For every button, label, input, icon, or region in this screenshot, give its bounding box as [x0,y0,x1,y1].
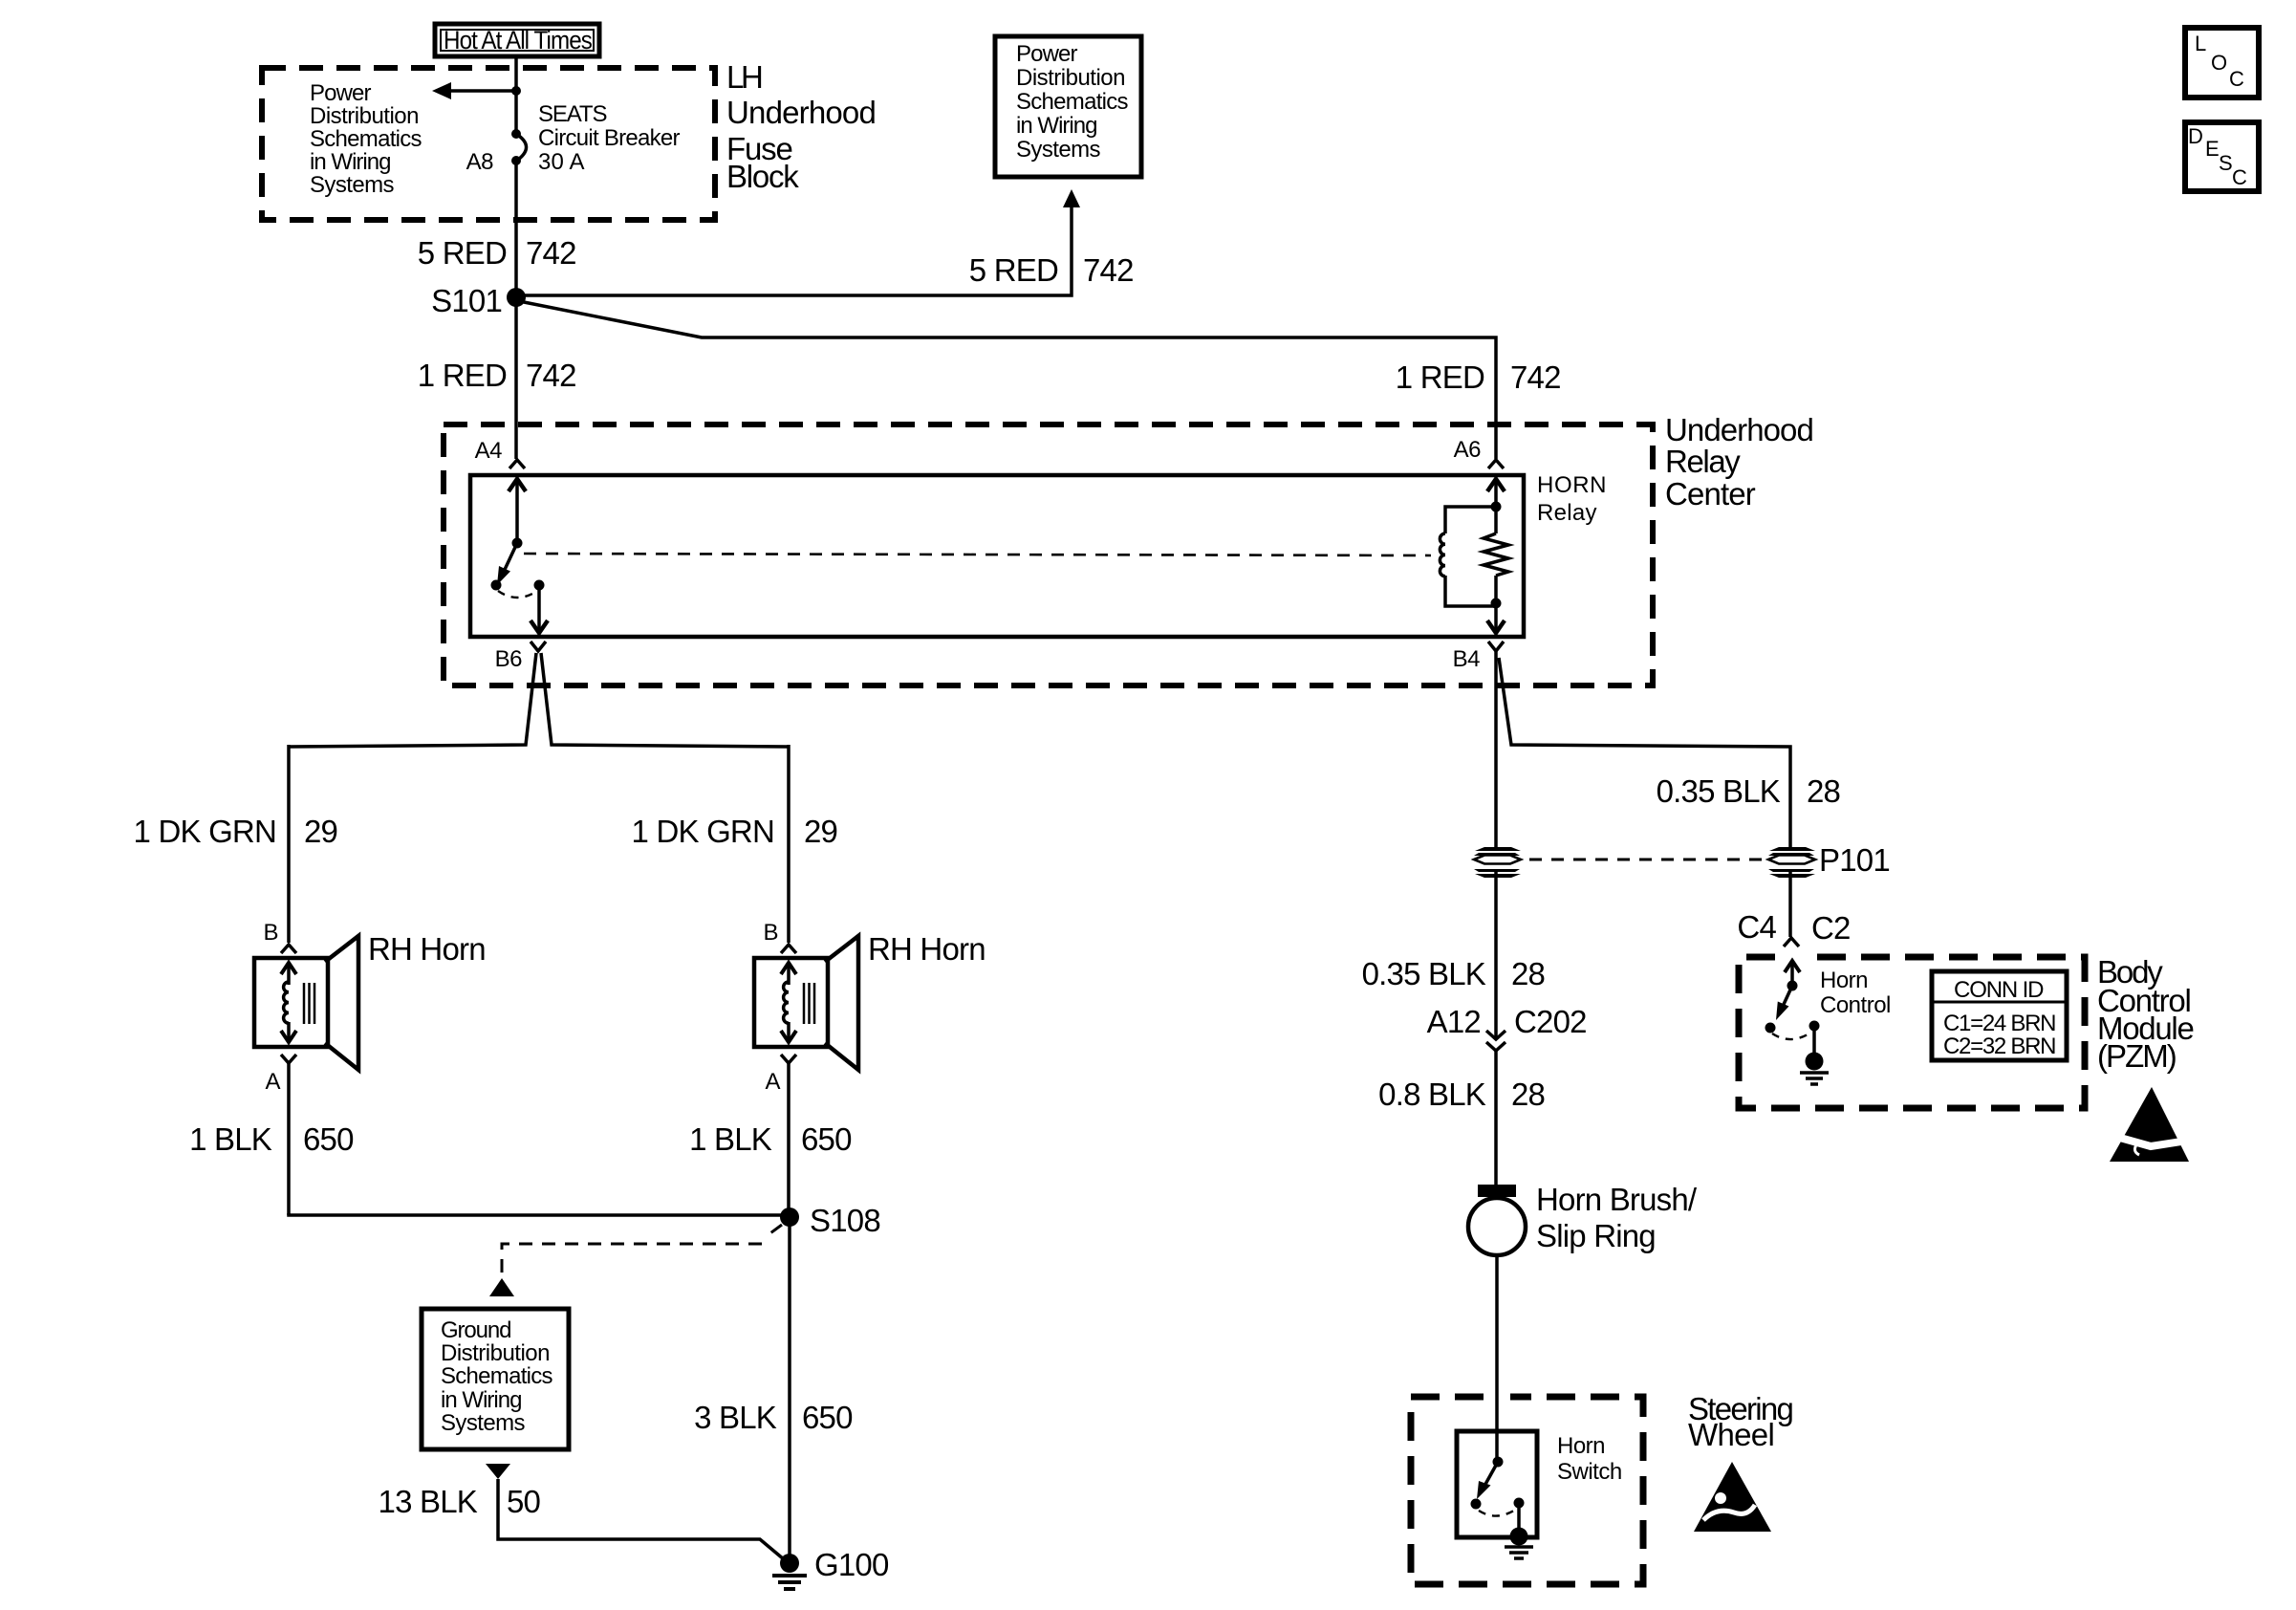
svg-text:CONN ID: CONN ID [1954,977,2044,1003]
svg-text:G100: G100 [814,1547,889,1582]
svg-text:HORN: HORN [1537,472,1606,498]
svg-text:Center: Center [1665,476,1756,511]
svg-text:13 BLK: 13 BLK [379,1484,478,1519]
svg-text:A: A [765,1069,780,1095]
label: Steering Wheel [1688,1391,1793,1452]
wire: branch arrow to power distribution (left) [447,89,516,93]
svg-text:Schematics: Schematics [1016,89,1129,115]
svg-text:650: 650 [802,1400,853,1435]
pins C4 C2 [1737,909,1850,946]
label: Ground Distribution Schematics box [422,1309,569,1449]
svg-text:Slip Ring: Slip Ring [1536,1218,1656,1253]
svg-text:Circuit Breaker: Circuit Breaker [538,125,681,151]
svg-text:742: 742 [1510,359,1561,395]
svg-text:28: 28 [1807,773,1840,809]
svg-text:S101: S101 [431,283,502,318]
label: LH Underhood Fuse Block [726,59,876,194]
svg-text:1 DK GRN: 1 DK GRN [632,814,774,849]
horn brush / slip ring [1468,1182,1698,1255]
label: LOC box [2185,28,2259,98]
svg-text:A12: A12 [1427,1004,1481,1039]
horn control switch inside BCM [1765,961,1891,1084]
svg-text:0.35 BLK: 0.35 BLK [1362,956,1486,991]
wire: right horn drop 1 DK GRN 29 [787,745,791,943]
svg-text:Distribution: Distribution [310,103,419,129]
svg-text:B6: B6 [495,646,523,672]
svg-text:S: S [2219,151,2233,175]
svg-text:Wheel: Wheel [1688,1417,1774,1452]
svg-text:28: 28 [1511,1077,1545,1112]
svg-text:O: O [2211,51,2227,75]
svg-text:C1=24 BRN: C1=24 BRN [1943,1011,2056,1036]
svg-text:Underhood: Underhood [726,95,876,130]
svg-text:742: 742 [526,358,576,393]
svg-text:650: 650 [303,1121,354,1157]
svg-text:B: B [263,920,278,946]
svg-text:29: 29 [304,814,337,849]
circuit breaker SEATS 30A [466,101,681,175]
svg-text:B: B [763,920,778,946]
svg-text:E: E [2205,137,2220,161]
svg-text:Systems: Systems [441,1410,526,1436]
left horn RH Horn [254,920,486,1095]
svg-text:Hot At All Times: Hot At All Times [444,26,592,54]
svg-text:Horn: Horn [1820,968,1868,993]
svg-text:5 RED: 5 RED [418,235,507,271]
svg-text:5 RED: 5 RED [969,252,1058,288]
svg-text:A: A [265,1069,280,1095]
svg-text:0.8 BLK: 0.8 BLK [1378,1077,1486,1112]
pin A6 [1454,437,1504,468]
svg-text:S108: S108 [810,1203,880,1238]
svg-text:Control: Control [1820,992,1891,1018]
svg-text:SEATS: SEATS [538,101,607,127]
svg-text:30 A: 30 A [538,149,584,175]
svg-text:Systems: Systems [1016,137,1101,163]
ground G100 [772,1547,889,1589]
wire: S108 down to G100 3 BLK 650 [788,1217,791,1558]
svg-text:LH: LH [726,59,763,95]
svg-text:Systems: Systems [310,172,395,198]
svg-text:Block: Block [726,159,799,194]
wire: B4 to P101 left [1494,651,1498,848]
wire: right horn ground 1 BLK 650 [787,1063,791,1217]
svg-text:Relay: Relay [1665,444,1741,479]
pin B4 [1453,642,1504,672]
wire: P101 left down 0.35 BLK 28 [1494,871,1498,1038]
svg-text:(PZM): (PZM) [2097,1038,2177,1074]
svg-text:1 RED: 1 RED [418,358,507,393]
wire: 5 RED 742 down to S101 [514,161,518,459]
horn switch box [1457,1431,1537,1537]
pin B6 [495,642,546,672]
svg-text:RH Horn: RH Horn [868,931,986,967]
svg-text:1 BLK: 1 BLK [189,1121,272,1157]
svg-text:C2=32 BRN: C2=32 BRN [1943,1033,2056,1059]
Steering Wheel dashed box [1411,1397,1643,1584]
node S108 [780,1207,799,1227]
connector P101 left half [1474,847,1521,878]
svg-text:Schematics: Schematics [441,1363,553,1389]
label: Power Distribution Schematics box (top middle) [995,36,1141,177]
node S101 [507,288,526,307]
svg-text:1 DK GRN: 1 DK GRN [134,814,276,849]
wire: B4 branch to P101 right 0.35 BLK 28 [1499,658,1790,848]
svg-text:1 BLK: 1 BLK [689,1121,772,1157]
svg-text:C: C [2229,67,2244,91]
relay actuation dashed link [524,554,1431,555]
connector C202 pin A12 [1427,1004,1587,1051]
wire: P101 right down to C2 [1788,871,1792,937]
svg-text:A4: A4 [475,438,503,464]
svg-text:650: 650 [801,1121,852,1157]
wire: C202 down 0.8 BLK 28 [1494,1051,1498,1185]
svg-text:50: 50 [507,1484,541,1519]
svg-text:D: D [2188,124,2203,148]
wire: S101 diagonal to right feed 1 RED 742 [519,301,1496,459]
ESD symbol (steering wheel) [1694,1462,1771,1532]
svg-text:Horn Brush/: Horn Brush/ [1536,1182,1698,1217]
svg-text:C: C [2232,165,2247,189]
svg-text:28: 28 [1511,956,1545,991]
connector P101 right half [1768,842,1890,878]
svg-text:in Wiring: in Wiring [310,149,391,175]
relay coil and resistor (right side) [1440,479,1508,633]
label: Horn Switch [1557,1433,1622,1485]
wire: battery feed vertical from Hot box [514,56,518,134]
svg-text:Horn: Horn [1557,1433,1605,1459]
svg-text:P101: P101 [1819,842,1890,878]
svg-text:742: 742 [1083,252,1134,288]
svg-text:L: L [2195,32,2206,55]
svg-text:1 RED: 1 RED [1396,359,1484,395]
svg-text:Distribution: Distribution [441,1340,550,1366]
ESD symbol (BCM) [2103,1087,2194,1162]
wire: left horn drop 1 DK GRN 29 [287,745,291,943]
svg-text:Power: Power [1016,41,1078,67]
svg-text:Ground: Ground [441,1317,511,1343]
relay switch (left side) [491,479,549,633]
svg-text:RH Horn: RH Horn [368,931,486,967]
svg-text:Switch: Switch [1557,1459,1622,1485]
svg-text:C2: C2 [1811,910,1851,946]
Body Control Module dashed box [1739,957,2085,1108]
svg-text:C4: C4 [1737,909,1776,945]
svg-text:A8: A8 [466,149,494,175]
LH Underhood Fuse Block dashed box [262,68,715,220]
wire: horn ground bus to S108 [289,1213,782,1215]
wire: dashed pass-through P101 [1529,859,1764,861]
label: CONN ID table [1932,971,2067,1060]
pin A4 [475,438,525,468]
svg-text:3 BLK: 3 BLK [694,1400,777,1435]
svg-text:0.35 BLK: 0.35 BLK [1657,773,1781,809]
wire: slip ring to horn switch [1495,1255,1499,1462]
svg-text:Distribution: Distribution [1016,65,1125,91]
label: Body Control Module (PZM) [2097,954,2194,1074]
relay box HORN Relay [470,475,1524,637]
label: Power Distribution Schematics in Wiring Systems (left box text) [310,80,422,198]
svg-text:C202: C202 [1514,1004,1587,1039]
svg-text:Underhood: Underhood [1665,412,1813,447]
svg-text:in Wiring: in Wiring [1016,113,1097,139]
right horn RH Horn [754,920,986,1095]
svg-text:742: 742 [526,235,576,271]
wire: left horn ground 1 BLK 650 [287,1063,291,1215]
svg-text:Relay: Relay [1537,500,1597,526]
label: Underhood Relay Center [1665,412,1813,511]
svg-text:29: 29 [804,814,837,849]
horn switch contacts [1471,1457,1534,1559]
svg-text:in Wiring: in Wiring [441,1387,522,1413]
wire: dashed branch S108 to ground distribution [764,1225,782,1238]
svg-text:B4: B4 [1453,646,1481,672]
Underhood Relay Center dashed box [444,424,1653,685]
wire: S101 to power distribution arrow (top middle) [516,205,1072,295]
svg-text:Power: Power [310,80,372,106]
label: DESC box [2185,122,2259,191]
wire: ground box to G100 13 BLK 50 [486,1464,510,1479]
wire: B6 tent split to horns [289,653,536,747]
svg-text:A6: A6 [1454,437,1482,463]
label: Hot At All Times box [435,24,599,56]
svg-text:Schematics: Schematics [310,126,422,152]
